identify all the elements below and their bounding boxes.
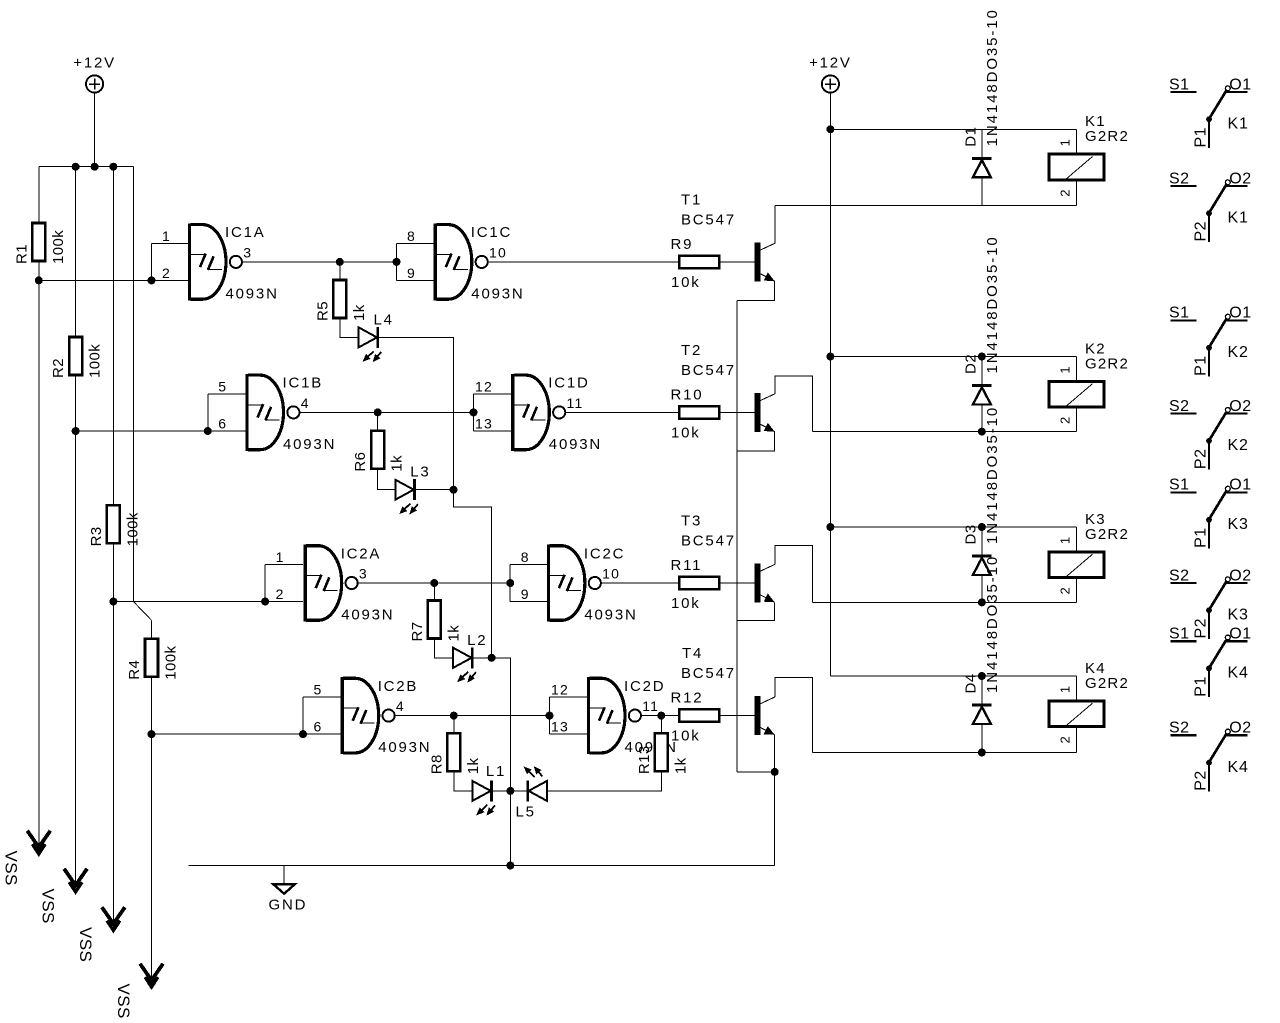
wire rail A lower (R1 to VSS)	[38, 261, 40, 848]
wire node2 row to IC1B	[76, 430, 246, 432]
VSS power arrow	[64, 869, 87, 892]
wire K2 pin 1 stub	[1076, 357, 1078, 380]
wire K2 pin 2 stub	[1076, 409, 1078, 432]
wire R5 bottom corner to L4	[340, 318, 359, 337]
wire IC2B output to IC2D input	[395, 715, 550, 717]
LED L1 body	[472, 780, 495, 815]
resistor R6 body	[371, 431, 384, 469]
junction L3 cathode	[450, 486, 458, 494]
junction R13 tap	[657, 712, 665, 720]
junction R6 tap	[374, 408, 382, 416]
svg-text:T1: T1	[681, 191, 702, 208]
wire L3 cathode to chain	[415, 489, 454, 491]
wire rail D lower (R3 to VSS)	[112, 543, 114, 924]
transistor T4 body	[755, 696, 775, 735]
svg-text:T4: T4	[682, 645, 703, 662]
wire rail E lower (R4 to VSS)	[151, 677, 153, 981]
svg-text:D4: D4	[962, 673, 979, 693]
svg-text:T3: T3	[681, 513, 702, 530]
wire R8 bottom corner to L1	[454, 771, 473, 791]
wire K3 pin 2 stub	[1076, 579, 1078, 602]
svg-text:1k: 1k	[351, 304, 368, 321]
junction L1/L5 node	[506, 787, 514, 795]
svg-text:6: 6	[218, 416, 227, 432]
op-amp IC1A NAND gate body	[188, 223, 242, 300]
svg-text:3: 3	[359, 566, 368, 582]
svg-text:9: 9	[407, 265, 416, 281]
junction IC2A stub	[261, 598, 269, 606]
diode D3 body	[972, 556, 991, 575]
junction node4 below R4	[148, 730, 156, 738]
svg-text:4093N: 4093N	[283, 436, 336, 453]
junction IC1A stub	[148, 276, 156, 284]
svg-text:K3: K3	[1228, 607, 1249, 624]
svg-text:O1: O1	[1229, 477, 1251, 494]
svg-text:4093N: 4093N	[378, 739, 431, 756]
wire T3 collector jog	[775, 546, 813, 603]
relay K3 coil	[1049, 552, 1104, 578]
resistor R7 body	[428, 601, 441, 639]
wire L2 cathode to chain	[473, 657, 492, 659]
svg-text:O1: O1	[1229, 626, 1251, 643]
svg-text:4093N: 4093N	[584, 607, 637, 624]
wire node4 row to IC2B	[152, 733, 341, 735]
junction node1 below R1	[35, 276, 43, 284]
svg-text:4093N: 4093N	[471, 285, 524, 302]
wire K3 top row	[830, 526, 1076, 528]
+12V power symbol	[822, 75, 839, 92]
svg-text:IC2D: IC2D	[624, 678, 665, 695]
wire IC2C output to R11	[601, 582, 679, 584]
junction D2 top	[978, 353, 986, 361]
svg-text:+12V: +12V	[73, 55, 116, 72]
svg-text:VSS: VSS	[114, 984, 133, 1019]
svg-text:O1: O1	[1229, 76, 1251, 93]
svg-text:T2: T2	[681, 342, 702, 359]
svg-text:13: 13	[551, 719, 569, 735]
wire K4 bottom row	[812, 752, 1076, 754]
svg-text:10: 10	[489, 244, 507, 260]
wire node3 row to IC2A	[113, 601, 303, 603]
svg-text:IC2A: IC2A	[341, 545, 382, 562]
resistor R13 body	[655, 733, 668, 771]
svg-text:2: 2	[162, 265, 171, 281]
wire rail E upper (bus corner to row3)	[132, 167, 134, 602]
relay K1 coil	[1049, 154, 1104, 180]
wire +12V to bus	[94, 93, 96, 167]
svg-text:1: 1	[1058, 536, 1073, 544]
diode D2 body	[972, 386, 991, 405]
svg-text:S2: S2	[1169, 170, 1190, 187]
svg-text:O2: O2	[1229, 720, 1251, 737]
relay K2 coil	[1049, 381, 1104, 407]
svg-text:IC1D: IC1D	[548, 375, 589, 392]
wire T2 emitter to rail	[737, 432, 775, 451]
svg-text:10k: 10k	[671, 274, 701, 291]
wire K3 pin 1 stub	[1076, 527, 1078, 550]
wire K1 pin 1 stub	[1076, 129, 1078, 152]
svg-text:100k: 100k	[50, 230, 67, 264]
wire IC2A output to IC2C input	[358, 582, 511, 584]
svg-text:13: 13	[475, 415, 493, 431]
svg-text:8: 8	[407, 228, 416, 244]
op-amp IC1D NAND gate body	[511, 374, 565, 451]
svg-text:IC1A: IC1A	[225, 224, 266, 241]
junction node2 below R2	[72, 427, 80, 435]
svg-text:2: 2	[1058, 189, 1073, 197]
transistor T3 body	[755, 564, 775, 603]
wire IC2C pin 8	[510, 564, 547, 566]
op-amp IC1B NAND gate body	[245, 374, 299, 451]
svg-text:R12: R12	[671, 690, 704, 707]
svg-text:1k: 1k	[445, 625, 462, 642]
wire T1 emitter to rail	[737, 281, 775, 300]
op-amp IC2D NAND gate body	[587, 677, 641, 754]
junction IC2B stub	[299, 730, 307, 738]
resistor R1 body	[32, 223, 45, 261]
wire top supply bus	[39, 166, 134, 168]
junction IC2C stub	[506, 579, 514, 587]
svg-text:S1: S1	[1169, 477, 1190, 494]
svg-text:K4: K4	[1228, 665, 1249, 682]
svg-text:S2: S2	[1169, 567, 1190, 584]
wire R6 bottom corner to L3	[378, 469, 396, 490]
switch contact K4 S1/O1/P1	[1169, 626, 1252, 698]
LED L3 body	[395, 479, 418, 514]
junction R8 tap	[450, 712, 458, 720]
VSS power arrow	[102, 907, 125, 930]
svg-text:4093N: 4093N	[341, 607, 394, 624]
svg-text:100k: 100k	[87, 344, 104, 378]
wire IC2D pin 12	[550, 696, 587, 698]
svg-text:1k: 1k	[389, 455, 406, 472]
diode D4 body	[972, 705, 991, 724]
svg-text:11: 11	[642, 698, 659, 714]
svg-text:P2: P2	[1192, 221, 1209, 242]
svg-text:R7: R7	[409, 622, 426, 642]
wire diagonal to R4	[133, 602, 151, 621]
svg-text:BC547: BC547	[681, 362, 736, 379]
svg-text:2: 2	[1058, 416, 1073, 424]
svg-text:BC547: BC547	[681, 211, 736, 228]
junction IC1B stub	[204, 427, 212, 435]
junction K3 supply	[826, 523, 834, 531]
svg-text:G2R2: G2R2	[1085, 355, 1129, 372]
op-amp IC2C NAND gate body	[547, 545, 601, 622]
wire IC2B pin 5	[303, 696, 341, 698]
switch contact K3 S1/O1/P1	[1169, 477, 1252, 549]
LED L5 body	[524, 766, 547, 801]
switch contact K3 S2/O2/P2	[1169, 567, 1252, 639]
wire T3 emitter to rail	[737, 602, 775, 620]
wire R11 to T3 base	[719, 582, 754, 584]
transistor T1 body	[755, 242, 775, 281]
resistor R4 body	[145, 639, 158, 677]
op-amp IC1C NAND gate body	[434, 223, 488, 300]
svg-text:K1: K1	[1228, 116, 1249, 133]
svg-text:4: 4	[396, 698, 405, 714]
wire IC2C pin 9	[510, 601, 547, 603]
wire T2 collector jog	[775, 376, 813, 432]
wire IC1B pin 5	[208, 393, 246, 395]
wire L5 anode to R13 bottom	[547, 771, 661, 791]
wire T1 collector to K1 row	[774, 205, 776, 243]
junction IC1C stub	[393, 258, 401, 266]
wire +12V rail right	[829, 93, 831, 676]
svg-text:K2: K2	[1228, 344, 1249, 361]
svg-text:4093N: 4093N	[226, 285, 279, 302]
svg-text:VSS: VSS	[2, 851, 21, 886]
switch contact K1 S2/O2/P2	[1169, 170, 1252, 242]
transistor T2 body	[755, 393, 775, 432]
svg-text:P1: P1	[1192, 127, 1209, 148]
junction L2 cathode	[488, 654, 496, 662]
svg-text:L3: L3	[410, 464, 430, 481]
svg-text:R5: R5	[314, 301, 331, 321]
svg-text:R11: R11	[671, 557, 703, 574]
+12V power symbol	[86, 75, 103, 92]
wire LED chain jog row3	[492, 658, 511, 791]
svg-text:L5: L5	[516, 804, 536, 821]
junction R5 tap	[336, 258, 344, 266]
svg-text:1N4148DO35-10: 1N4148DO35-10	[984, 235, 1001, 373]
wire IC1D pin 13	[474, 430, 512, 432]
wire IC1D pin 12	[474, 393, 512, 395]
svg-text:10k: 10k	[671, 728, 701, 745]
svg-text:2: 2	[1058, 736, 1073, 744]
wire L4 cathode to LED chain corner	[378, 337, 453, 489]
svg-text:D2: D2	[962, 354, 979, 374]
svg-text:2: 2	[1058, 587, 1073, 595]
svg-text:8: 8	[521, 549, 530, 565]
svg-text:10k: 10k	[671, 595, 701, 612]
wire K1 top row	[830, 128, 1076, 130]
resistor R9 body	[679, 256, 719, 268]
svg-text:5: 5	[218, 379, 227, 395]
svg-text:12: 12	[475, 378, 493, 394]
wire R13 top	[660, 716, 662, 734]
svg-text:O2: O2	[1229, 170, 1251, 187]
svg-text:10k: 10k	[671, 424, 701, 441]
junction D3 bottom	[978, 598, 986, 606]
svg-text:S1: S1	[1169, 305, 1190, 322]
svg-text:G2R2: G2R2	[1085, 526, 1129, 543]
svg-text:P2: P2	[1192, 618, 1209, 639]
junction D2 bottom	[978, 428, 986, 436]
svg-text:R13: R13	[636, 745, 653, 774]
resistor R5 body	[333, 280, 346, 318]
wire R12 to T4 base	[719, 715, 754, 717]
relay K4 coil	[1049, 701, 1104, 727]
svg-text:L2: L2	[467, 632, 487, 649]
diode D1 body	[972, 158, 991, 177]
svg-text:VSS: VSS	[76, 927, 95, 962]
svg-text:P2: P2	[1192, 449, 1209, 470]
wire GND stub	[283, 866, 285, 885]
LED L2 body	[453, 647, 476, 682]
svg-text:R9: R9	[671, 236, 694, 253]
svg-text:S1: S1	[1169, 626, 1190, 643]
wire K4 top row	[830, 675, 1076, 677]
svg-text:L4: L4	[374, 311, 394, 328]
svg-text:S2: S2	[1169, 720, 1190, 737]
wire IC1B input stub	[207, 394, 209, 431]
wire IC1C pin 9	[397, 279, 434, 281]
svg-text:G2R2: G2R2	[1085, 128, 1129, 145]
wire IC2D pin 13	[550, 733, 587, 735]
junction LED chain on GND bus	[506, 862, 514, 870]
wire D1 branch	[981, 129, 983, 205]
svg-text:1: 1	[1058, 139, 1073, 147]
svg-text:2: 2	[276, 586, 285, 602]
wire rail B upper (bus to R2)	[75, 167, 77, 337]
junction K2 supply	[826, 353, 834, 361]
svg-text:1k: 1k	[465, 757, 482, 774]
resistor R12 body	[679, 709, 719, 721]
svg-text:K4: K4	[1228, 759, 1249, 776]
wire LED chain jog row2	[454, 490, 492, 658]
svg-text:1N4148DO35-10: 1N4148DO35-10	[984, 555, 1001, 693]
wire IC1A pin 1	[152, 242, 188, 244]
svg-text:R1: R1	[13, 244, 30, 264]
wire IC1D input stub	[473, 394, 475, 431]
junction D4 bottom	[978, 749, 986, 757]
svg-text:R10: R10	[671, 386, 704, 403]
wire IC2D input stub	[549, 697, 551, 734]
wire D3 branch	[981, 527, 983, 602]
svg-text:R3: R3	[88, 526, 105, 546]
wire R7 top	[433, 583, 435, 601]
svg-text:6: 6	[314, 719, 323, 735]
wire K1 bottom row	[775, 204, 1077, 206]
svg-text:1N4148DO35-10: 1N4148DO35-10	[984, 8, 1001, 146]
svg-text:11: 11	[567, 395, 584, 411]
svg-text:D3: D3	[962, 524, 979, 544]
svg-text:1: 1	[1058, 685, 1073, 693]
wire rail A upper (bus to R1)	[38, 167, 40, 223]
resistor R10 body	[679, 406, 719, 418]
wire R5 top	[339, 262, 341, 280]
svg-text:1: 1	[276, 549, 285, 565]
junction emitter node	[771, 768, 779, 776]
wire K1 pin 2 stub	[1076, 181, 1078, 205]
wire emitter rail	[736, 301, 738, 772]
svg-text:O1: O1	[1229, 305, 1251, 322]
junction D4 top	[978, 672, 986, 680]
switch contact K1 S1/O1/P1	[1169, 76, 1252, 148]
wire IC1B output to IC1D input	[300, 411, 474, 413]
wire R6 top	[377, 412, 379, 430]
wire IC1A output to IC1C input	[242, 261, 397, 263]
wire IC2A input stub	[264, 565, 266, 602]
wire D2 branch	[981, 357, 983, 432]
wire R8 top	[453, 716, 455, 734]
wire T4 collector jog	[775, 678, 813, 753]
switch contact K4 S2/O2/P2	[1169, 720, 1252, 792]
resistor R3 body	[107, 505, 120, 543]
wire L5 to node	[510, 790, 527, 792]
op-amp IC2A NAND gate body	[304, 545, 358, 622]
wire IC2C input stub	[509, 565, 511, 602]
svg-text:S1: S1	[1169, 76, 1190, 93]
junction IC2D stub	[546, 712, 554, 720]
svg-text:L1: L1	[486, 763, 506, 780]
svg-text:R2: R2	[50, 358, 67, 378]
ground symbol GND	[273, 884, 294, 893]
svg-text:9: 9	[521, 586, 530, 602]
svg-text:+12V: +12V	[809, 55, 852, 72]
wire IC1C output to R9	[488, 261, 679, 263]
resistor R8 body	[447, 733, 460, 771]
wire LED chain to GND bus	[509, 791, 511, 866]
svg-text:IC1B: IC1B	[283, 375, 324, 392]
resistor R2 body	[69, 337, 82, 375]
svg-text:IC2C: IC2C	[584, 545, 625, 562]
svg-text:1: 1	[162, 228, 171, 244]
wire R7 bottom corner to L2	[434, 639, 453, 658]
wire IC1C pin 8	[397, 242, 434, 244]
svg-text:R4: R4	[126, 660, 143, 680]
wire R10 to T2 base	[719, 411, 754, 413]
svg-text:O2: O2	[1229, 567, 1251, 584]
svg-text:10: 10	[602, 566, 620, 582]
svg-text:1k: 1k	[672, 757, 689, 774]
wire GND bus	[188, 865, 774, 867]
wire K4 pin 2 stub	[1076, 728, 1078, 753]
wire K2 bottom row	[812, 431, 1076, 433]
svg-text:R8: R8	[428, 754, 445, 774]
svg-text:4093N: 4093N	[549, 436, 602, 453]
svg-text:BC547: BC547	[681, 665, 736, 682]
svg-text:K3: K3	[1228, 516, 1249, 533]
VSS power arrow	[27, 831, 50, 854]
svg-text:1: 1	[1058, 366, 1073, 374]
svg-text:IC2B: IC2B	[378, 678, 419, 695]
wire IC1C input stub	[396, 243, 398, 280]
svg-text:4: 4	[301, 395, 310, 411]
wire rail D upper (bus to R3)	[112, 167, 114, 506]
wire D4 branch	[981, 676, 983, 753]
wire L1 cathode to node	[492, 790, 510, 792]
switch contact K2 S1/O1/P1	[1169, 305, 1252, 377]
LED L4 body	[359, 327, 382, 362]
svg-text:O2: O2	[1229, 398, 1251, 415]
switch contact K2 S2/O2/P2	[1169, 398, 1252, 470]
svg-text:R6: R6	[352, 452, 369, 472]
svg-text:D1: D1	[962, 126, 979, 146]
wire K3 bottom row	[812, 601, 1076, 603]
wire T4 emitter down	[774, 735, 776, 866]
svg-text:P2: P2	[1192, 770, 1209, 791]
junction node3 below R3	[109, 598, 117, 606]
svg-text:BC547: BC547	[681, 533, 736, 550]
wire rail B lower (R2 to VSS)	[75, 375, 77, 886]
svg-text:3: 3	[243, 244, 252, 260]
svg-text:VSS: VSS	[38, 889, 57, 924]
wire into R4 top	[151, 620, 153, 638]
svg-text:P1: P1	[1192, 355, 1209, 376]
junction on bus at R2 rail	[72, 163, 80, 171]
svg-text:GND: GND	[269, 897, 308, 914]
svg-text:P1: P1	[1192, 527, 1209, 548]
svg-text:1N4148DO35-10: 1N4148DO35-10	[984, 406, 1001, 544]
svg-text:S2: S2	[1169, 398, 1190, 415]
svg-text:K2: K2	[1228, 437, 1249, 454]
wire IC2A pin 1	[265, 564, 303, 566]
junction on bus at R3 rail	[109, 163, 117, 171]
wire K4 pin 1 stub	[1076, 676, 1078, 699]
wire IC2D output to R12	[641, 715, 679, 717]
